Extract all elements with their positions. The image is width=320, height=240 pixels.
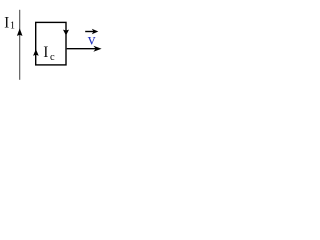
arrowhead: current direction up on left conductor: [17, 28, 23, 36]
svg-text:I: I: [4, 15, 9, 32]
svg-text:1: 1: [10, 21, 15, 32]
label Ic: [43, 44, 55, 63]
wire: output arrow to the right: [67, 46, 102, 52]
svg-text:c: c: [50, 52, 55, 63]
wire: left vertical conductor: [19, 10, 21, 80]
svg-text:I: I: [43, 44, 48, 61]
vector arrow over v: [85, 29, 98, 34]
svg-text:v: v: [88, 31, 96, 48]
arrowhead: current Ic up on box left edge: [33, 49, 39, 56]
arrowhead: current down on box right edge: [63, 30, 69, 36]
label I1: [4, 15, 15, 32]
box: loop outline: [36, 22, 66, 65]
